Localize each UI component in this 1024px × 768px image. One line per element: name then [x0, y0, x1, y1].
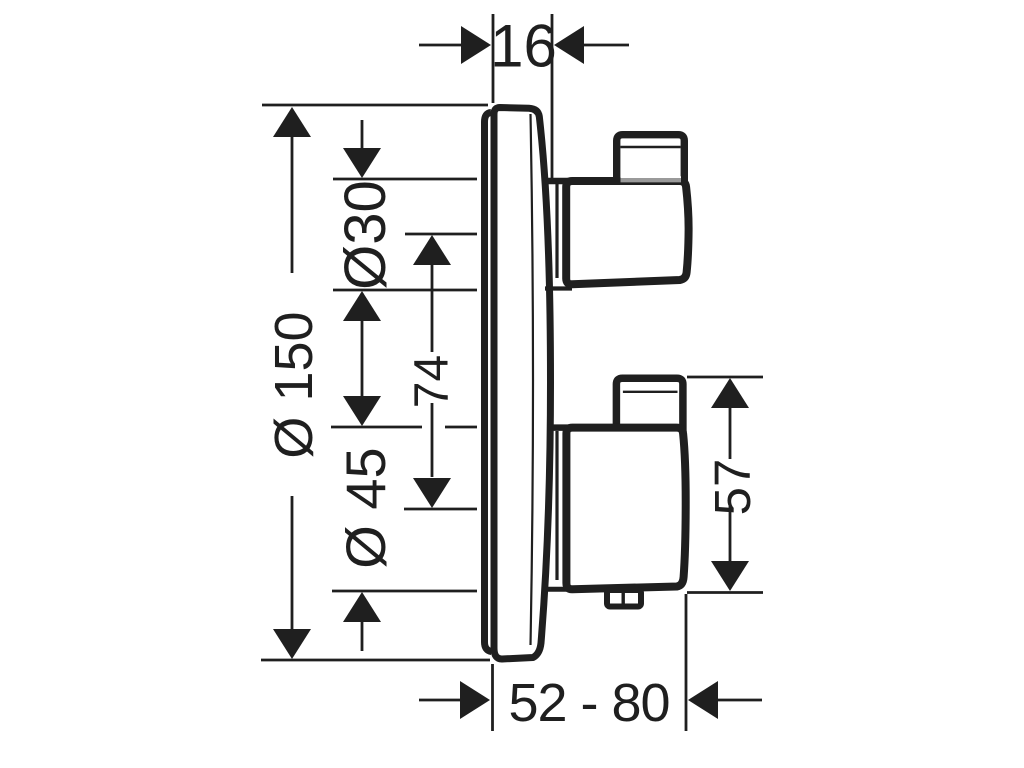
svg-text:74: 74: [406, 355, 459, 408]
svg-text:52 - 80: 52 - 80: [508, 673, 669, 733]
svg-text:16: 16: [490, 13, 557, 80]
svg-text:Ø30: Ø30: [333, 180, 398, 290]
svg-text:Ø 45: Ø 45: [334, 447, 397, 568]
svg-text:57: 57: [704, 459, 761, 516]
svg-text:Ø 150: Ø 150: [264, 311, 324, 458]
